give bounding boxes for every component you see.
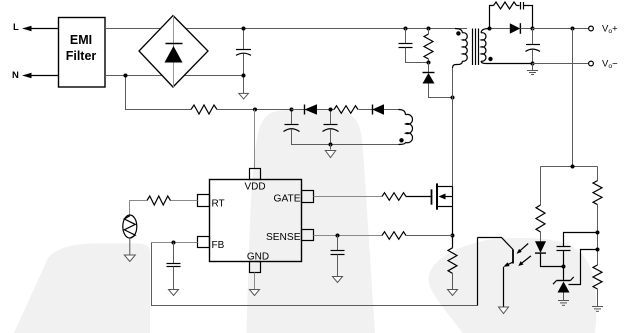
light arrows <box>517 244 531 267</box>
thermistor RT <box>123 215 137 238</box>
controller IC U1 <box>210 180 302 262</box>
wire source <box>452 207 454 236</box>
diode VDD 1 <box>292 104 335 115</box>
terminal Vo- <box>589 61 594 66</box>
output diode <box>510 23 533 34</box>
pin GND <box>250 262 261 273</box>
resistor divider lower <box>593 265 602 307</box>
svg-text:Filter: Filter <box>66 49 97 63</box>
wire Vo+ line <box>533 28 589 30</box>
capacitor compensation <box>557 233 598 267</box>
wire to gate <box>406 196 431 198</box>
svg-text:FB: FB <box>212 240 225 251</box>
wire <box>359 109 373 111</box>
resistor sense line <box>382 232 406 240</box>
output snubber capacitor <box>521 2 533 29</box>
output snubber resistor <box>490 2 520 29</box>
wire divider tee <box>541 166 598 168</box>
wire divider feed rail <box>572 29 574 167</box>
resistor divider upper <box>593 167 602 266</box>
clamp capacitor <box>399 27 429 63</box>
wire drain rail <box>452 68 454 187</box>
resistor LED series <box>536 167 545 242</box>
svg-text:GATE: GATE <box>274 194 301 205</box>
pin GATE <box>302 191 314 203</box>
LED opto <box>535 241 564 266</box>
pin FB <box>198 237 210 248</box>
diode VDD 2 <box>372 104 399 115</box>
ground opto emitter <box>499 307 509 314</box>
pin VDD <box>250 169 261 180</box>
wire startup drop <box>126 76 192 110</box>
wire Vo- line <box>533 63 589 65</box>
aux phase dot <box>399 138 403 142</box>
TL431 shunt regulator <box>553 267 574 301</box>
svg-text:RT: RT <box>212 199 225 210</box>
svg-text:GND: GND <box>247 252 269 263</box>
clamp resistor <box>424 27 433 65</box>
svg-text:L: L <box>13 22 19 33</box>
aux winding <box>399 110 413 145</box>
wire aux bottom rail <box>292 133 399 145</box>
wire GATE lead <box>314 196 383 198</box>
ground sense resistor <box>448 290 458 296</box>
output capacitor <box>526 29 541 66</box>
EMI filter box <box>59 18 106 88</box>
ground sense cap <box>333 277 343 283</box>
ground thermistor <box>129 238 131 255</box>
arrow N <box>22 73 32 79</box>
ground GND pin <box>254 273 256 290</box>
resistor startup <box>191 105 217 114</box>
wire top AC line <box>105 28 467 30</box>
clamp diode <box>423 63 453 98</box>
primary phase dot <box>456 31 460 35</box>
wire secondary top <box>489 28 510 30</box>
wire VDD pin lead <box>254 110 256 170</box>
transformer T1 primary <box>453 29 468 69</box>
ground bulk cap <box>239 93 249 99</box>
svg-text:N: N <box>12 70 19 81</box>
ground FB cap <box>169 290 179 296</box>
wire bottom AC line <box>105 75 244 77</box>
capacitor FB <box>167 243 181 290</box>
wire FB long line <box>152 243 478 306</box>
bridge rectifier BR1 <box>139 16 208 88</box>
pin RT <box>198 195 210 207</box>
resistor RT <box>147 196 171 205</box>
transformer core <box>473 29 479 66</box>
capacitor VDD 1 <box>284 108 300 145</box>
wire L line <box>31 28 58 30</box>
resistor sense shunt <box>448 236 457 290</box>
svg-text:VDD: VDD <box>244 182 265 193</box>
wire to VDD node <box>217 109 291 111</box>
wire FB lead <box>152 242 198 244</box>
resistor VDD <box>334 106 358 114</box>
watermark <box>14 110 596 333</box>
junction dots left <box>124 74 128 78</box>
wire to thermistor <box>130 201 148 216</box>
secondary phase dot <box>488 57 492 61</box>
earth ground TL431 <box>558 301 569 306</box>
terminal Vo+ <box>589 26 594 31</box>
junction clamp-drain <box>451 96 455 100</box>
resistor gate <box>382 193 406 201</box>
capacitor VDD 2 <box>323 108 339 145</box>
svg-text:EMI: EMI <box>70 33 92 47</box>
arrow L <box>22 26 32 32</box>
pin SENSE <box>302 230 314 241</box>
bulk capacitor <box>236 29 251 94</box>
earth ground output <box>527 64 538 75</box>
ground aux <box>330 145 332 150</box>
optocoupler transistor <box>478 238 514 308</box>
wire SENSE lead <box>314 235 383 237</box>
capacitor sense filter <box>331 236 345 277</box>
MOSFET Q1 <box>432 183 453 209</box>
wire RT lead <box>171 200 198 202</box>
svg-text:SENSE: SENSE <box>266 232 301 243</box>
wire opto collector rail <box>477 238 479 306</box>
wire TL431 ref <box>569 250 598 285</box>
wire N line <box>31 75 58 77</box>
earth ground divider <box>592 307 603 312</box>
transformer secondary <box>481 29 532 64</box>
